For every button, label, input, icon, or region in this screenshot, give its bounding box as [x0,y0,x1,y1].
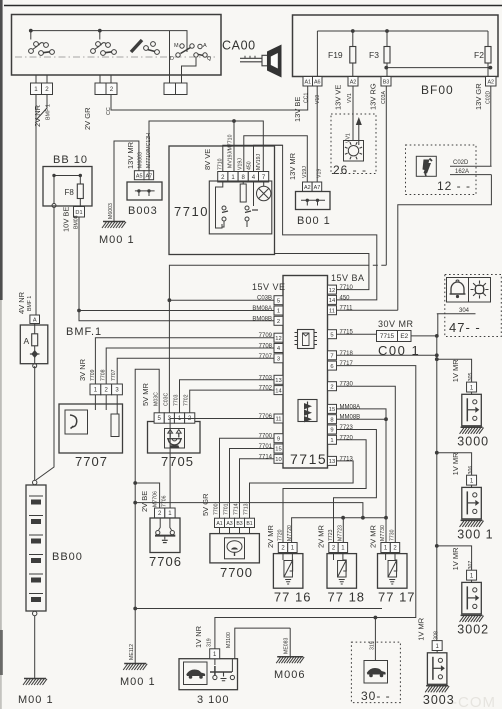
fuse box unit BF00 [293,15,499,77]
svg-text:305: 305 [468,373,474,382]
svg-text:M7706: M7706 [153,491,159,507]
svg-text:450: 450 [247,161,253,170]
B001 pins A2 A7 [303,182,313,191]
wire CC: CA00 pin2(mid) to BF00 A1 [111,86,308,110]
bonnet switch unit 3100 [179,659,238,690]
svg-text:12 - -: 12 - - [437,179,471,193]
svg-text:13V MR: 13V MR [288,152,297,180]
wire 7702: 7715 left pin14 to 7705 pin2 [190,390,274,413]
svg-text:7706: 7706 [149,554,182,569]
fuse F19 [352,31,354,47]
svg-text:BMF.1: BMF.1 [66,326,102,338]
connector unit B001 [296,192,331,210]
svg-text:7711: 7711 [340,306,354,312]
bell icon in 47-- [447,278,469,303]
svg-text:306: 306 [468,466,474,475]
BB10 output connector pin D1 [74,207,85,218]
wire 30V MR: C001 E2 to door-switch bus [411,335,437,337]
7700 pin stubs into box [220,528,250,534]
wire 2V NR: CA00 pin1 down to fuse BMF1 [35,95,37,316]
svg-text:M006: M006 [274,669,306,681]
svg-text:3003: 3003 [423,693,455,707]
svg-text:300 1: 300 1 [457,527,493,541]
svg-text:Q: Q [207,56,212,62]
svg-text:MM08B: MM08B [340,415,361,421]
wire M3100 from 3100 to M006 [235,628,290,659]
wire MM08A: 7715 right pin15 down to sensor M-bus [337,409,387,543]
7705 pins 5 3 1 2 [154,413,164,423]
svg-text:7700: 7700 [259,434,273,440]
wire M7710/MC12H: B003 A7 to 7710 pins 1 and 7 [149,121,263,180]
7715 internal IC chip symbol [298,330,315,349]
svg-text:7707: 7707 [259,354,273,360]
svg-text:C03C: C03C [164,392,170,406]
door switch unit 3000 [462,394,482,426]
svg-text:7701: 7701 [259,444,273,450]
svg-text:307: 307 [468,561,474,570]
svg-text:2V BE: 2V BE [140,491,149,512]
page left margin shadow strip [0,0,3,300]
wire 7720: 7715 right pin1 to 7716 pin2 [283,440,366,543]
remote unit 12-- dashed box [406,145,477,195]
svg-text:B1: B1 [246,521,252,527]
7710 internal resistor [242,182,244,184]
svg-text:7703: 7703 [259,375,273,381]
CA00 connector pin 2 (middle) [99,75,101,83]
svg-text:7702: 7702 [184,394,190,406]
svg-text:1: 1 [277,309,280,315]
svg-text:11: 11 [275,417,281,423]
svg-text:7701: 7701 [224,503,230,515]
svg-text:7708: 7708 [101,369,107,381]
svg-text:1V NR: 1V NR [194,625,203,648]
svg-text:3: 3 [277,357,280,363]
ground M001 below battery [24,678,46,680]
svg-text:A7: A7 [314,185,321,191]
wire 7723: 7715 right pin9 to 7718 pin2 [334,430,377,543]
CA00 internal dash-dot line [15,56,218,58]
svg-text:7707: 7707 [111,369,117,381]
main ground bus to M001 [135,608,382,610]
sensor unit 7718 [327,554,357,589]
svg-text:7705: 7705 [161,454,194,469]
svg-text:M3100: M3100 [226,632,232,648]
svg-text:2V MR: 2V MR [316,524,325,548]
battery feed wires [34,366,36,481]
branch M-bus link [135,503,363,518]
7710 pins 2 1 8 4 7 [218,172,228,183]
svg-text:F2: F2 [474,50,484,60]
ground M001 (ME112) [134,609,136,664]
svg-text:7714: 7714 [259,454,273,460]
svg-text:13V BE: 13V BE [293,97,302,122]
wire MM08B: 7715 right pin8 joining MM08A [337,418,387,420]
svg-text:7710: 7710 [174,204,209,219]
remote unit 30-- dashed box [351,642,400,703]
7706 switch contacts [159,518,161,530]
svg-text:15V BA: 15V BA [331,273,365,283]
BF00 connector pin A2 (fuse F2 output) [486,77,497,87]
svg-text:13: 13 [329,459,335,465]
warning lamp icon in 47-- [469,278,491,303]
svg-text:A6: A6 [314,79,321,85]
wire 7714: 7715 left pin10 to 7700 B3 [240,459,275,518]
svg-text:3 100: 3 100 [197,694,230,706]
svg-text:13: 13 [275,378,281,384]
wire linking F3 and F2 outputs [386,67,490,69]
svg-text:13V VE: 13V VE [334,85,343,110]
wire 7707: 7715 left pin3 to 7707 pin3 [117,358,274,384]
svg-text:C03B: C03B [257,296,272,302]
svg-text:B3: B3 [383,79,390,85]
svg-text:BM08B: BM08B [252,316,272,322]
svg-text:13V MR: 13V MR [126,141,135,169]
svg-text:BB 10: BB 10 [53,154,88,166]
svg-text:10: 10 [275,457,281,463]
CA00 connector (right, unlabeled) [164,83,176,95]
svg-text:7715: 7715 [380,333,395,340]
svg-text:M7730: M7730 [380,525,386,541]
BF00 connector pin B3 (fuse F3 output) [381,77,391,87]
BB10 left feed wire with terminal [53,176,55,204]
svg-text:12: 12 [275,336,281,342]
B003 pins A5 A7 [134,171,144,180]
svg-text:A2: A2 [350,79,357,85]
fuse F2 [487,31,489,47]
svg-text:12: 12 [329,288,335,294]
svg-text:CC1: CC1 [304,93,310,103]
svg-text:BMF 1: BMF 1 [27,296,33,311]
30-- car icon [364,661,388,684]
svg-text:7710: 7710 [340,285,354,291]
BF00 connector pins A1 A6 [303,77,313,87]
7715 internal transducer coil symbol [298,400,317,422]
svg-text:47- -: 47- - [449,320,481,335]
svg-text:7707: 7707 [75,454,108,469]
svg-text:BM08A: BM08A [252,306,272,312]
svg-text:VV1: VV1 [347,93,353,103]
svg-text:7: 7 [330,354,333,360]
7715 right pins with wire-name labels [328,285,337,294]
remote unit 26-- dashed box [331,114,376,174]
wire 7718: 7715 right pin7 to door-switch bus [337,354,437,356]
svg-text:319: 319 [370,641,376,650]
svg-text:7713: 7713 [244,503,250,515]
connector pin A above fuse holder [30,315,40,324]
3100 switch contacts [215,659,233,672]
svg-text:7708: 7708 [259,344,273,350]
svg-text:7715: 7715 [290,451,327,467]
svg-text:ME083: ME083 [284,637,290,654]
svg-text:F19: F19 [328,50,343,60]
M bus linking sensor grounds [292,518,386,543]
sensor unit 7716 [273,554,303,589]
CA00 switch contact cluster 3 (key barrel) [131,40,159,54]
ground M001 (M6003) [103,221,125,223]
svg-text:26 - -: 26 - - [333,163,367,177]
wire 7700: 7715 left pin9 to 7700 A1 [220,438,275,518]
wire 7701: 7715 left pin15 to 7700 A3 [230,449,275,519]
wire BM08: BB10 D1 down to 7715 pins BM08A/BM08B [79,217,274,321]
7707 lighter icon [65,410,88,434]
wire 7710: unit 7710 output to 7715 right pin 12 [275,254,369,290]
svg-text:304: 304 [459,308,470,314]
3100 car icon [184,662,208,685]
wire 319 into 30-- [374,618,376,661]
sensor unit 7717 [378,554,408,589]
svg-text:30V MR: 30V MR [378,319,414,329]
riser M7723 [342,518,344,543]
fuse F3 [386,31,388,47]
wire 7711/162A: 7715 right pin 11 [337,309,398,311]
door switch unit 3002 [462,582,482,614]
svg-text:3V NR: 3V NR [78,358,87,381]
svg-text:7703: 7703 [174,394,180,406]
7710 internal lamp [263,182,265,186]
3100 pin 1 [210,649,220,659]
7707 internal resistor [116,395,118,414]
branch 307 to 3002 [437,546,472,570]
branch 305 to 3000 [437,359,472,382]
svg-text:11: 11 [329,308,335,314]
7705 blower icon [165,429,185,449]
svg-text:3000: 3000 [457,434,489,448]
svg-text:10V BE: 10V BE [62,207,71,232]
wire from CA00 pin2 joining battery feed [36,95,47,121]
svg-text:77 18: 77 18 [328,590,366,605]
wire 450: 7710 pin4 to 7715 right pin 14 [254,145,377,300]
svg-text:D: D [170,56,174,62]
VV1 direction arrow [358,124,360,145]
svg-text:A: A [33,317,37,323]
7710 pin Z riser stub [223,145,283,171]
svg-text:6: 6 [330,364,333,370]
svg-text:9: 9 [277,436,280,442]
svg-text:77 16: 77 16 [274,590,312,605]
svg-text:A: A [24,336,30,346]
svg-text:7715: 7715 [340,330,354,336]
svg-text:450: 450 [340,295,351,301]
connector unit B003 [127,182,162,200]
svg-text:30- -: 30- - [361,689,391,703]
CA00 switch contact cluster 4 with position letters M A D [100,31,212,83]
svg-text:C02D: C02D [453,160,469,166]
svg-text:2V GR: 2V GR [83,107,92,130]
svg-text:M00 1: M00 1 [18,694,54,706]
svg-text:1V MR: 1V MR [451,452,460,476]
fuse holder arrow mark [30,353,40,355]
BF00 connector pin A2 (fuse F19 output) [348,77,358,87]
gauge unit 7700 [210,534,260,563]
svg-text:A2: A2 [304,185,311,191]
svg-text:13V RG: 13V RG [369,83,378,110]
7715 left pins with wire-name labels [274,296,283,305]
svg-text:7700: 7700 [220,565,253,580]
svg-text:M: M [174,43,179,49]
CA00 switch contact cluster 2 [91,49,96,54]
CA00 connector pins 1|2 (left) [35,75,37,83]
svg-text:7702: 7702 [259,386,273,392]
svg-text:V19: V19 [315,95,321,104]
wire 7717/319: 7715 right pin6 to 3100 and 30-- [215,366,416,649]
battery to ground wire [34,616,36,679]
svg-text:2: 2 [330,384,333,390]
svg-text:7730: 7730 [340,382,354,388]
svg-text:9: 9 [330,428,333,434]
wire B003 A5 to ground M6003 [114,141,139,222]
svg-text:B003: B003 [128,205,158,217]
CA00 switch contact cluster 1 [29,49,34,54]
wire 7730: 7715 right pin2 to 7717 pin2 [337,386,396,542]
injector icon in 12-- [416,156,436,176]
svg-text:V19J: V19J [238,158,244,170]
branch 306 to 3001 [437,453,472,476]
ignition switch unit CA00 box [12,15,222,76]
svg-text:5V MR: 5V MR [141,382,150,406]
wire 7715: right pin5 to connector C001 [337,333,377,335]
svg-text:B00 1: B00 1 [297,215,331,227]
svg-text:A3: A3 [226,521,232,527]
svg-text:2: 2 [45,86,49,93]
svg-text:5V GR: 5V GR [201,493,210,516]
ventilation unit 7705 [148,422,201,454]
svg-text:7723: 7723 [340,425,354,431]
svg-text:15: 15 [329,407,335,413]
svg-text:7706: 7706 [162,495,168,507]
svg-text:15V VE: 15V VE [252,282,286,292]
svg-text:MM08A: MM08A [340,404,361,410]
svg-text:MV19J: MV19J [256,153,262,170]
lamp icon in 26-- [344,141,364,162]
svg-text:A: A [203,43,207,49]
svg-text:2: 2 [277,319,280,325]
svg-text:A1: A1 [304,79,311,85]
remote unit 47-- dashed box [445,275,502,337]
page top border line [4,5,502,7]
wire 7703: 7715 left pin13 to 7705 pin1 [180,380,275,413]
cigar lighter unit 7707 [59,404,123,453]
svg-text:4V NR: 4V NR [17,291,26,314]
svg-text:1V MR: 1V MR [451,547,460,571]
svg-text:F3: F3 [369,50,379,60]
door switch unit 300 1 [462,487,482,519]
svg-text:14: 14 [329,298,336,304]
svg-text:7720: 7720 [340,435,354,441]
CA00 internal top bus wire [31,30,100,32]
svg-text:1: 1 [34,86,38,93]
wire VV1 from BF00 A2 into 26-- lamp [352,86,354,141]
svg-text:ME112: ME112 [129,644,135,660]
svg-text:-COM: -COM [452,694,496,709]
wire V19: BF00 A6 down to B001 A7 [316,86,318,182]
svg-text:D1: D1 [75,210,82,216]
wire C03: BF00 B3 to 7715 pin5 and 7705 pin3 (dashed tail) [385,86,387,265]
wire M03C: 7705 pin5 to main ground bus [135,369,159,608]
battery BB00 [26,485,46,611]
svg-text:8V VE: 8V VE [203,149,212,170]
svg-text:7713: 7713 [340,456,354,462]
svg-text:VV1: VV1 [346,133,352,143]
svg-text:8: 8 [330,417,333,423]
svg-text:A2: A2 [487,79,494,85]
wire 162A from 12-- down/left (net to C03 bus) [398,175,492,311]
svg-text:M7723: M7723 [338,525,344,541]
svg-text:CA00: CA00 [222,39,256,53]
svg-text:B3: B3 [236,521,242,527]
7710 internal switch contacts [222,206,226,210]
svg-text:7717: 7717 [340,361,354,367]
svg-text:F8: F8 [65,188,75,197]
wire 7708: 7715 left pin4 to 7707 pin2 [106,348,274,384]
wire 304: 47-- stub to door-switch bus [437,314,439,336]
ignition key symbol [240,45,282,78]
svg-text:M00 1: M00 1 [99,234,135,246]
switch unit 7706 [150,518,180,553]
door switch bus 305/306/307/308 down right side [436,336,438,641]
svg-text:13V GR: 13V GR [474,83,483,110]
door switch unit 3003 [427,653,447,685]
svg-text:2V MR: 2V MR [368,524,377,548]
7710 inner mechanism box [209,181,271,234]
flasher unit 7710 outer box [169,146,275,255]
svg-text:77 17: 77 17 [378,590,416,605]
svg-text:BF00: BF00 [421,83,454,97]
wire BF00 A2(GR) down to 12-- C02D [490,86,492,166]
svg-text:7709: 7709 [259,333,273,339]
svg-text:1: 1 [330,438,333,444]
svg-text:5: 5 [330,332,333,338]
svg-text:MV19J/M7710: MV19J/M7710 [228,134,234,168]
svg-text:15: 15 [275,447,281,453]
wire V19J: 7710 pin 8 to B001 A2 [244,136,307,182]
svg-text:BB00: BB00 [52,551,83,563]
svg-text:2V MR: 2V MR [266,524,275,548]
BB10 internal bus wire [54,175,80,177]
svg-text:7718: 7718 [340,351,354,357]
wire 7713: 7715 right pin13 to 7700 B1 [250,461,354,518]
svg-text:14: 14 [275,388,282,394]
svg-text:E2: E2 [400,333,408,340]
ground M006 (ME083) [289,628,291,656]
7700 gauge icon [225,538,245,559]
svg-text:BMF 1: BMF 1 [46,104,52,120]
svg-text:319: 319 [207,638,213,647]
svg-text:5: 5 [277,298,280,304]
wire 7709: 7715 left pin12 to 7707 pin1 [95,338,274,384]
svg-text:7706: 7706 [259,414,273,420]
svg-text:A1: A1 [216,521,222,527]
svg-text:M00 1: M00 1 [120,676,156,688]
svg-text:2: 2 [110,86,114,93]
fuse holder A box with fuse [20,325,48,364]
svg-text:7714: 7714 [234,503,240,515]
BF00 internal supply bus [317,30,488,32]
svg-text:1V MR: 1V MR [451,359,460,383]
7700 pins A1 A3 B3 B1 [215,518,225,527]
svg-text:M6003: M6003 [108,203,114,219]
svg-text:M7720: M7720 [287,525,293,541]
7710 internal conductor bracket [216,182,223,228]
instrument module 7715 main block [283,276,328,469]
branch M7706 to 7706 pin2 [135,483,159,508]
wire 7706: 7715 left pin11 to 7706 pin1 [170,419,274,509]
svg-text:M03C: M03C [154,392,160,406]
svg-text:1V MR: 1V MR [416,617,425,641]
7707 pins 1 2 3 [90,384,101,395]
svg-text:A5: A5 [136,173,143,179]
svg-text:3002: 3002 [457,622,489,636]
svg-text:7700: 7700 [214,503,220,515]
